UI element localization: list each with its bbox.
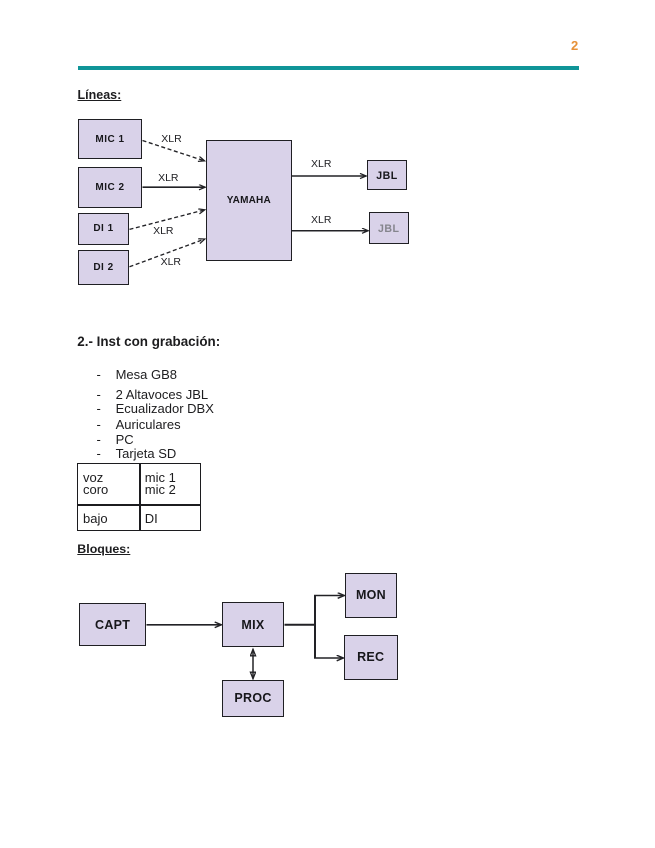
label XLR (MIC1 wire) (161, 134, 181, 145)
cell DI (145, 512, 158, 525)
wire XLR MIC2 to YAMAHA (solid) (143, 186, 206, 188)
top rule (78, 66, 579, 70)
heading Lineas (78, 89, 122, 102)
wire branch vertical (314, 596, 316, 659)
wire branch to MON (314, 595, 344, 597)
label XLR (MIC2 wire) (158, 173, 178, 184)
block DI 1 (78, 213, 129, 245)
label XLR (JBL2 wire) (311, 215, 331, 226)
label XLR (DI1 wire) (153, 226, 173, 237)
wire XLR YAMAHA to JBL1 (292, 175, 366, 177)
block REC (344, 635, 398, 680)
block MIX (222, 602, 285, 647)
label XLR (DI2 wire) (161, 257, 181, 268)
block CAPT (79, 603, 147, 646)
block YAMAHA mixer (206, 140, 292, 261)
list item 2 Altavoces JBL (97, 388, 101, 401)
cell bajo (83, 512, 108, 525)
block MON (345, 573, 397, 618)
heading 2.- Inst con grabacion (77, 335, 220, 348)
table row divider (77, 504, 200, 506)
table patch assignments (77, 463, 200, 532)
wire CAPT to MIX (147, 624, 222, 626)
cell mic 1 / mic 2 (145, 471, 176, 484)
cell voz / coro (83, 471, 103, 484)
wire XLR MIC1 to YAMAHA (dashed) (143, 141, 205, 161)
wire XLR DI1 to YAMAHA (dashed) (130, 210, 205, 230)
wire XLR YAMAHA to JBL2 (292, 230, 368, 232)
block PROC (222, 680, 284, 717)
heading Bloques (77, 543, 130, 555)
block DI 2 (78, 250, 129, 285)
label XLR (JBL1 wire) (311, 159, 331, 170)
block MIC 2 (78, 167, 142, 208)
list item Mesa GB8 (97, 368, 101, 381)
list item Tarjeta SD (97, 447, 101, 460)
list item PC (97, 433, 101, 446)
wire XLR DI2 to YAMAHA (dashed) (130, 239, 205, 267)
list item Auriculares (97, 418, 101, 431)
table column divider (139, 463, 141, 532)
wire MIX to PROC (double arrow) (252, 649, 254, 678)
table border frame (77, 463, 200, 532)
list item Ecualizador DBX (97, 402, 101, 415)
page number 2 (571, 39, 578, 52)
wire branch to REC (314, 657, 343, 659)
block JBL speaker 1 (367, 160, 407, 190)
block JBL speaker 2 (369, 212, 409, 244)
wire MIX to branch node (285, 624, 317, 626)
block MIC 1 (78, 119, 142, 159)
